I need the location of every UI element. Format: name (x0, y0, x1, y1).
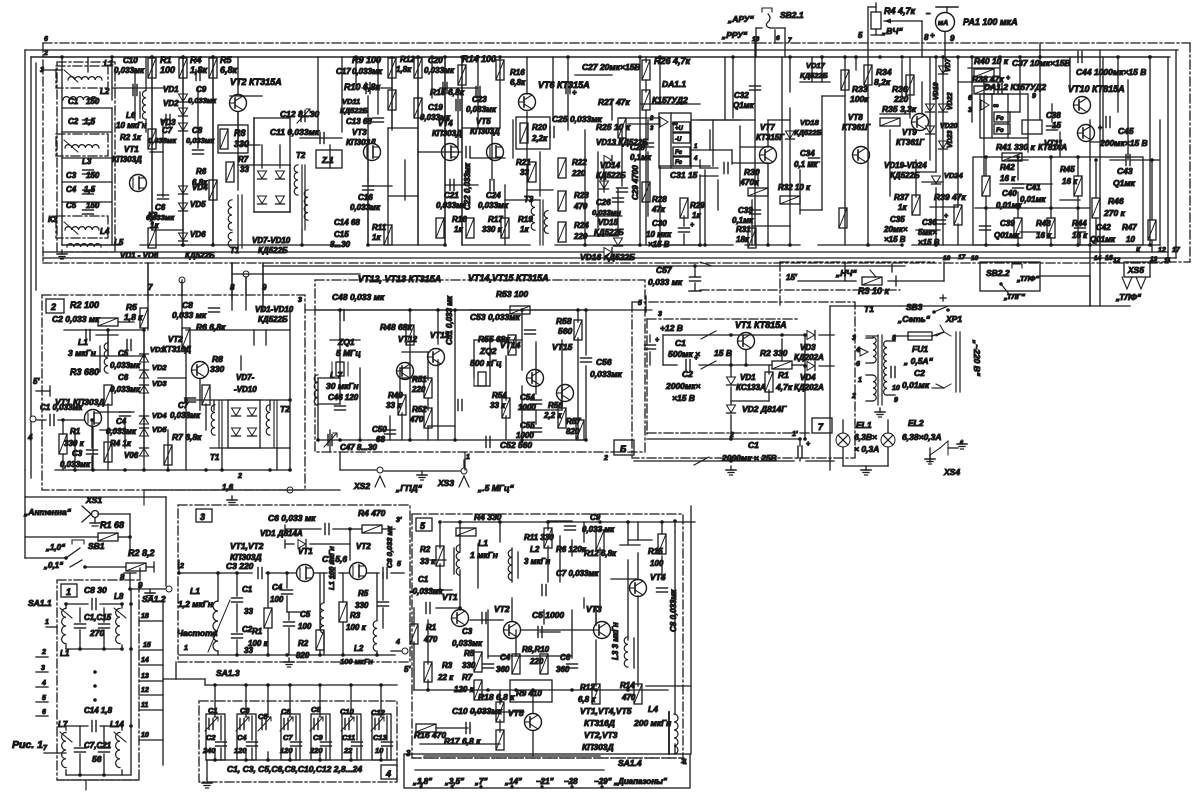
svg-text:330: 330 (210, 364, 224, 374)
svg-text:SB1: SB1 (88, 541, 105, 551)
svg-text:C40: C40 (1002, 189, 1017, 198)
svg-text:C27 20мк×15В: C27 20мк×15В (582, 62, 641, 72)
svg-text:ZQ2: ZQ2 (479, 346, 497, 356)
svg-text:Частота: Частота (177, 628, 218, 638)
svg-text:C24: C24 (486, 191, 501, 200)
svg-text:„0,1“: „0,1“ (43, 561, 63, 570)
svg-text:SA1.3: SA1.3 (216, 668, 240, 678)
svg-text:0,033мк: 0,033мк (114, 66, 145, 75)
svg-text:„ТЛФ“: „ТЛФ“ (1115, 292, 1142, 302)
svg-text:C17: C17 (336, 67, 351, 76)
svg-text:0,033мк: 0,033мк (110, 361, 141, 370)
svg-text:4: 4 (27, 433, 33, 442)
svg-text:C53 0,033мк: C53 0,033мк (470, 312, 521, 322)
svg-text:L1: L1 (478, 538, 488, 548)
svg-text:47к: 47к (651, 205, 666, 214)
svg-text:10: 10 (141, 732, 149, 739)
svg-text:0,033мк: 0,033мк (106, 427, 137, 436)
svg-text:Fc: Fc (996, 115, 1004, 122)
svg-text:R4 470: R4 470 (358, 508, 386, 518)
svg-text:С8 0,033 мк: С8 0,033 мк (385, 525, 394, 568)
svg-text:КД522Б: КД522Б (185, 251, 215, 260)
svg-text:220: 220 (571, 169, 586, 178)
svg-text:С12: С12 (371, 708, 386, 717)
svg-text:C21: C21 (444, 191, 459, 200)
svg-text:SB3: SB3 (906, 302, 923, 312)
svg-text:VD11: VD11 (342, 97, 360, 106)
svg-text:R8: R8 (212, 354, 223, 364)
svg-text:VT5: VT5 (508, 708, 524, 718)
svg-text:R53 100: R53 100 (496, 289, 528, 299)
svg-text:L1 100 мкГн: L1 100 мкГн (327, 546, 336, 590)
svg-text:КД202А: КД202А (794, 383, 824, 392)
svg-text:15 В: 15 В (714, 348, 732, 358)
svg-text:L4: L4 (648, 704, 658, 714)
svg-text:L1: L1 (190, 586, 200, 596)
svg-text:R23: R23 (574, 191, 589, 200)
svg-text:L4: L4 (100, 227, 110, 236)
svg-text:+: + (694, 355, 698, 362)
svg-text:+: + (944, 213, 948, 220)
svg-text:T1: T1 (210, 453, 220, 462)
svg-text:Fc: Fc (675, 150, 683, 156)
svg-text:270: 270 (89, 628, 104, 638)
svg-text:R43: R43 (1036, 219, 1051, 228)
svg-text:C3: C3 (462, 627, 473, 636)
svg-text:R47: R47 (1122, 223, 1137, 232)
svg-text:XP1: XP1 (945, 314, 962, 324)
svg-text:+12 В: +12 В (660, 323, 683, 333)
svg-text:–: – (926, 9, 931, 18)
svg-text:VT10 КТ815А: VT10 КТ815А (1068, 84, 1125, 94)
svg-text:„3,5”: „3,5” (444, 777, 464, 786)
svg-text:С3: С3 (240, 706, 250, 715)
svg-text:C32: C32 (734, 91, 749, 100)
svg-text:−28: −28 (564, 777, 578, 786)
svg-text:14: 14 (141, 657, 149, 664)
svg-text:100 мкГн: 100 мкГн (340, 657, 373, 666)
svg-text:L1: L1 (60, 649, 70, 658)
svg-text:0,033мк: 0,033мк (590, 369, 623, 379)
svg-text:0,033мк: 0,033мк (110, 385, 141, 394)
svg-text:Q1мк: Q1мк (1113, 178, 1136, 188)
svg-text:C1: C1 (68, 97, 79, 106)
svg-text:C14 1,8: C14 1,8 (84, 706, 113, 715)
svg-text:XS4: XS4 (943, 467, 960, 477)
svg-text:-0,033мк: -0,033мк (410, 587, 444, 596)
svg-text:1: 1 (66, 587, 71, 597)
svg-text:7: 7 (148, 283, 153, 292)
svg-text:2: 2 (50, 302, 56, 312)
svg-text:C48 0,033 мк: C48 0,033 мк (332, 292, 385, 302)
svg-text:R3: R3 (350, 611, 361, 620)
svg-text:-U: -U (675, 137, 682, 143)
svg-text:2: 2 (43, 50, 48, 57)
svg-text:C1: C1 (675, 338, 686, 348)
svg-text:КТ361Г: КТ361Г (896, 138, 925, 147)
svg-text:6,8к: 6,8к (510, 78, 526, 87)
svg-text:C4: C4 (66, 185, 77, 194)
svg-text:9: 9 (1032, 93, 1036, 100)
svg-text:VD18: VD18 (800, 118, 820, 127)
svg-text:330 к: 330 к (482, 225, 503, 234)
svg-text:2: 2 (851, 393, 856, 400)
svg-text:4: 4 (855, 347, 860, 354)
svg-text:КТ315Г: КТ315Г (756, 133, 785, 142)
svg-text:4: 4 (41, 680, 46, 687)
svg-text:С11: С11 (342, 733, 355, 742)
svg-text:11: 11 (141, 702, 148, 709)
svg-text:240: 240 (202, 746, 216, 755)
svg-text:6: 6 (856, 361, 860, 368)
svg-text:+: + (1006, 75, 1010, 82)
svg-text:R4 330: R4 330 (474, 512, 502, 522)
svg-text:КД522Б: КД522Б (340, 106, 369, 115)
svg-text:1′: 1′ (792, 431, 798, 438)
svg-text:„Антенна“: „Антенна“ (23, 507, 72, 517)
svg-text:17: 17 (1172, 247, 1181, 254)
svg-text:+: + (690, 222, 694, 229)
svg-text:R35 3,3к: R35 3,3к (882, 104, 917, 114)
svg-text:5: 5 (397, 561, 401, 568)
svg-text:360: 360 (496, 665, 510, 674)
svg-text:EL1: EL1 (856, 420, 872, 430)
svg-text:17: 17 (958, 254, 966, 261)
svg-text:∞: ∞ (993, 101, 999, 110)
svg-text:R4 1к: R4 1к (110, 439, 132, 448)
svg-text:-VD10: -VD10 (234, 385, 257, 394)
svg-text:R58: R58 (556, 316, 572, 326)
svg-text:VD2: VD2 (152, 363, 167, 372)
svg-text:„Сеть“: „Сеть“ (897, 314, 931, 324)
svg-text:С4: С4 (237, 733, 247, 742)
svg-text:3 мкГн: 3 мкГн (68, 348, 96, 358)
svg-text:0,033мк: 0,033мк (146, 213, 175, 222)
svg-text:8: 8 (924, 33, 929, 42)
svg-text:С2: С2 (206, 733, 216, 742)
svg-text:XS5: XS5 (1127, 265, 1144, 275)
svg-text:R1: R1 (778, 370, 789, 380)
svg-text:R2 100: R2 100 (70, 300, 99, 310)
svg-text:Fc: Fc (996, 127, 1004, 134)
svg-text:VT14,VT15 КТ315А: VT14,VT15 КТ315А (468, 273, 549, 283)
svg-text:5: 5 (638, 300, 642, 307)
svg-text:VD4: VD4 (192, 183, 208, 192)
svg-text:150: 150 (86, 97, 100, 106)
svg-text:1: 1 (466, 454, 470, 461)
svg-text:3′: 3′ (396, 517, 402, 524)
svg-text:× 0,3А: × 0,3А (854, 444, 879, 454)
svg-text:VT1,VT2: VT1,VT2 (230, 541, 264, 551)
svg-text:R18 6,8 к: R18 6,8 к (478, 692, 515, 702)
svg-text:5′: 5′ (404, 665, 411, 674)
svg-text:7: 7 (788, 37, 792, 44)
svg-text:SA1.4: SA1.4 (618, 758, 642, 768)
svg-text:R31: R31 (736, 225, 751, 234)
svg-text:VT12, VT13 КТ315А: VT12, VT13 КТ315А (358, 274, 441, 284)
svg-text:„Диапазоны”: „Диапазоны” (613, 777, 667, 786)
svg-text:100 к: 100 к (248, 639, 269, 648)
svg-text:SB2.2: SB2.2 (986, 268, 1010, 278)
svg-text:КТ316Д: КТ316Д (162, 345, 191, 354)
svg-text:1: 1 (858, 377, 862, 384)
svg-text:L2: L2 (530, 545, 540, 554)
svg-text:0,01мк: 0,01мк (1020, 195, 1046, 204)
svg-text:SB2.1: SB2.1 (780, 10, 804, 20)
svg-text:0,033мк: 0,033мк (424, 66, 455, 75)
svg-text:9: 9 (894, 397, 898, 404)
svg-text:−29”: −29” (594, 777, 612, 786)
svg-text:2: 2 (41, 649, 46, 656)
svg-text:R48 68к: R48 68к (380, 322, 412, 332)
svg-text:+: + (572, 88, 577, 97)
svg-text:VT9: VT9 (902, 128, 917, 137)
svg-text:C22 0,033мк: C22 0,033мк (463, 162, 472, 210)
svg-text:470к: 470к (739, 177, 759, 187)
svg-text:22 к: 22 к (437, 673, 454, 682)
svg-text:20мк×: 20мк× (883, 225, 908, 234)
svg-text:470: 470 (423, 635, 438, 644)
svg-text:4: 4 (395, 639, 400, 646)
svg-text:VD7-VD10: VD7-VD10 (252, 236, 291, 245)
svg-text:С1: С1 (748, 440, 759, 450)
svg-text:VD5: VD5 (152, 425, 167, 434)
svg-text:12: 12 (1113, 257, 1121, 264)
svg-text:„ТЛФ“: „ТЛФ“ (1016, 274, 1039, 283)
svg-text:КП303Д: КП303Д (112, 155, 142, 164)
svg-text:30 мкГн: 30 мкГн (326, 381, 359, 391)
svg-text:DA1.1: DA1.1 (662, 79, 686, 89)
svg-text:0,033мк: 0,033мк (186, 136, 215, 145)
svg-text:C1: C1 (418, 575, 429, 584)
svg-text:C6: C6 (118, 373, 129, 382)
svg-text:470: 470 (409, 415, 424, 424)
svg-text:R2: R2 (298, 639, 309, 648)
svg-text:DA1.2 К157УД2: DA1.2 К157УД2 (984, 82, 1046, 92)
svg-text:16 к: 16 к (1062, 177, 1078, 186)
svg-text:„ 0,5А“: „ 0,5А“ (903, 356, 934, 366)
svg-text:КТ316Д: КТ316Д (584, 718, 615, 728)
svg-text:VT3: VT3 (352, 128, 367, 137)
svg-text:R41 330 к: R41 330 к (996, 142, 1035, 152)
svg-text:„РРУ“: „РРУ“ (721, 30, 748, 40)
svg-text:R42: R42 (1000, 163, 1015, 172)
svg-text:10 мкк: 10 мкк (646, 230, 672, 239)
svg-text:Q1мк: Q1мк (733, 101, 755, 110)
svg-text:10: 10 (375, 746, 384, 755)
svg-text:18: 18 (141, 613, 149, 620)
svg-text:C8 30: C8 30 (84, 585, 107, 595)
svg-text:„ТЛГ“: „ТЛГ“ (1003, 292, 1025, 301)
svg-text:КС133А: КС133А (736, 383, 766, 392)
svg-text:VT6 КТ315А: VT6 КТ315А (538, 80, 590, 90)
svg-text:C1 0,033мк: C1 0,033мк (40, 403, 83, 412)
svg-text:R37: R37 (894, 193, 909, 202)
svg-text:R1 68: R1 68 (100, 520, 124, 530)
svg-text:КД522Б: КД522Б (258, 315, 288, 324)
svg-text:R1: R1 (252, 627, 263, 636)
svg-text:К: К (1136, 247, 1141, 254)
svg-text:2: 2 (603, 455, 608, 462)
svg-text:220: 220 (529, 657, 544, 666)
svg-text:VD22: VD22 (947, 92, 954, 110)
svg-text:VD17: VD17 (806, 61, 826, 70)
svg-text:T1: T1 (864, 304, 874, 314)
svg-text:К3: К3 (48, 215, 58, 224)
svg-text:1 мкГн: 1 мкГн (470, 550, 498, 560)
svg-text:VD7-: VD7- (236, 373, 255, 382)
svg-text:R15: R15 (648, 547, 663, 556)
svg-text:PA1 100 мкА: PA1 100 мкА (963, 17, 1018, 27)
svg-text:VD2 Д814Г: VD2 Д814Г (742, 404, 787, 414)
svg-text:„.5 МГц“: „.5 МГц“ (477, 483, 514, 493)
svg-text:L1: L1 (78, 337, 88, 347)
svg-text:C51 0,033 мк: C51 0,033 мк (445, 295, 454, 345)
svg-text:×15 В: ×15 В (884, 235, 906, 244)
svg-text:33: 33 (240, 165, 249, 174)
svg-text:0,033мк: 0,033мк (466, 105, 497, 114)
svg-text:С8 0,033мк: С8 0,033мк (669, 589, 678, 632)
svg-text:R14 100: R14 100 (462, 54, 496, 64)
svg-text:2: 2 (237, 473, 242, 480)
svg-text:КТ814А: КТ814А (1038, 143, 1067, 152)
svg-text:C56: C56 (596, 357, 612, 367)
svg-text:C35: C35 (890, 215, 905, 224)
svg-text:1,8к: 1,8к (190, 65, 208, 75)
svg-text:T2: T2 (280, 404, 290, 414)
svg-text:1,5: 1,5 (84, 117, 96, 126)
svg-text:VT2,VT3: VT2,VT3 (584, 730, 618, 740)
svg-text:100 к: 100 к (346, 623, 367, 632)
svg-text:C38: C38 (1046, 111, 1061, 120)
svg-text:C2: C2 (68, 117, 79, 126)
svg-text:С1, С3, С5,С6,С8,С10,С12 2,: С1, С3, С5,С6,С8,С10,С12 2,8...24 (227, 764, 362, 774)
svg-text:6: 6 (42, 709, 46, 716)
svg-text:VD6: VD6 (190, 230, 206, 239)
svg-text:560: 560 (558, 326, 572, 336)
svg-text:С37 10мк×15В: С37 10мк×15В (1012, 58, 1071, 68)
svg-text:V06: V06 (124, 451, 139, 460)
svg-text:270 к: 270 к (1103, 208, 1126, 218)
svg-text:„~220 В“: „~220 В“ (972, 339, 982, 377)
svg-text:100: 100 (160, 65, 175, 75)
svg-text:C6: C6 (155, 203, 166, 212)
svg-text:3: 3 (852, 335, 856, 342)
svg-text:56: 56 (92, 754, 102, 764)
svg-text:R2 8,2: R2 8,2 (128, 548, 155, 558)
svg-text:XS2: XS2 (353, 481, 370, 491)
svg-text:R46: R46 (1108, 196, 1124, 206)
svg-text:R32 10 к: R32 10 к (778, 183, 811, 192)
svg-text:16: 16 (752, 36, 760, 43)
svg-text:VD4: VD4 (800, 373, 816, 382)
svg-text:VD7: VD7 (945, 57, 952, 72)
svg-text:C2: C2 (682, 369, 693, 379)
svg-text:1к: 1к (520, 225, 529, 234)
svg-text:4,7к: 4,7к (775, 382, 793, 392)
svg-text:2000мк×: 2000мк× (665, 381, 701, 391)
svg-text:R24: R24 (574, 221, 589, 230)
svg-text:Б: Б (620, 444, 627, 454)
svg-text:R5: R5 (358, 589, 369, 598)
svg-text:13: 13 (141, 673, 149, 680)
svg-text:0,033мк: 0,033мк (478, 201, 509, 210)
svg-text:КД522Б: КД522Б (258, 246, 288, 255)
svg-text:6,8к: 6,8к (220, 65, 238, 75)
svg-text:3: 3 (658, 311, 662, 318)
svg-text:C39: C39 (1000, 219, 1015, 228)
svg-text:0,033 мк: 0,033 мк (172, 310, 207, 320)
svg-text:VT1 КТ815А: VT1 КТ815А (735, 320, 787, 330)
svg-text:C16: C16 (358, 193, 373, 202)
svg-text:1,5: 1,5 (84, 185, 96, 194)
svg-text:С34: С34 (800, 149, 815, 158)
svg-text:100: 100 (298, 622, 312, 631)
svg-text:2,2 к: 2,2 к (543, 411, 562, 420)
svg-text:C1,C15: C1,C15 (84, 613, 112, 622)
svg-text:5′: 5′ (33, 377, 40, 386)
svg-text:С29 4700: С29 4700 (631, 165, 640, 200)
svg-text:12: 12 (141, 687, 149, 694)
svg-text:R7: R7 (238, 155, 249, 164)
svg-text:1: 1 (683, 759, 687, 766)
svg-text:R3: R3 (442, 661, 453, 670)
svg-text:VD23: VD23 (947, 130, 954, 148)
svg-text:33 к: 33 к (386, 401, 402, 410)
svg-text:КД522Б: КД522Б (794, 128, 823, 137)
svg-text:Рис. 1: Рис. 1 (12, 739, 43, 751)
svg-text:100: 100 (270, 595, 284, 604)
svg-text:6: 6 (776, 35, 780, 42)
svg-text:R20: R20 (532, 123, 547, 132)
svg-text:1: 1 (184, 645, 188, 652)
svg-text:200 мкГн: 200 мкГн (633, 718, 671, 728)
svg-text:R8,R10: R8,R10 (522, 645, 550, 654)
svg-text:VD1: VD1 (740, 373, 756, 382)
svg-text:R2 330: R2 330 (760, 348, 788, 358)
svg-text:VT2: VT2 (494, 604, 510, 614)
svg-text:C8: C8 (182, 300, 193, 310)
svg-text:R29: R29 (690, 201, 705, 210)
svg-text:C31 15: C31 15 (670, 170, 698, 180)
svg-text:R7 6,8к: R7 6,8к (172, 432, 202, 442)
svg-text:VD1 Д814А: VD1 Д814А (260, 529, 303, 538)
svg-text:330: 330 (355, 601, 369, 610)
svg-text:18: 18 (943, 255, 951, 262)
svg-text:„1,0“: „1,0“ (45, 543, 65, 552)
svg-text:R2 1к: R2 1к (120, 133, 142, 142)
svg-text:R6: R6 (196, 167, 207, 176)
svg-text:Q01мк: Q01мк (1090, 235, 1116, 244)
svg-text:VD1-VD10: VD1-VD10 (255, 305, 294, 314)
svg-text:120: 120 (234, 746, 247, 755)
svg-text:С6: С6 (281, 707, 291, 716)
svg-text:„НЧ“: „НЧ“ (835, 268, 857, 278)
svg-text:R16: R16 (510, 68, 525, 77)
svg-text:1,2 мкГн: 1,2 мкГн (178, 599, 213, 609)
svg-text:C3: C3 (72, 449, 83, 458)
svg-text:VT4: VT4 (650, 572, 666, 582)
svg-text:C45: C45 (1118, 126, 1134, 136)
svg-text:C5 1000: C5 1000 (532, 610, 564, 620)
svg-text:„АРУ“: „АРУ“ (727, 14, 754, 24)
svg-text:R34: R34 (876, 67, 892, 77)
svg-text:220: 220 (309, 746, 323, 755)
svg-text:1: 1 (45, 619, 49, 626)
svg-text:C5: C5 (300, 610, 311, 619)
svg-text:4: 4 (385, 769, 391, 779)
svg-text:XS3: XS3 (437, 478, 454, 488)
